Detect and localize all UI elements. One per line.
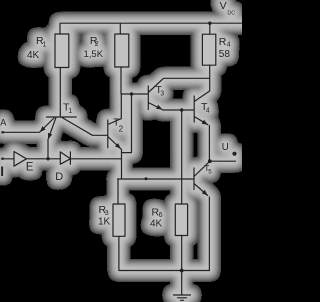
svg-text:2: 2 (119, 125, 124, 134)
svg-text:I: I (0, 164, 4, 179)
svg-text:DC: DC (227, 10, 235, 16)
svg-text:V: V (220, 0, 227, 12)
svg-text:U: U (222, 142, 229, 153)
svg-text:1: 1 (68, 108, 72, 115)
svg-text:1: 1 (43, 41, 47, 48)
svg-text:3: 3 (160, 91, 164, 98)
svg-text:E: E (26, 162, 34, 174)
svg-text:4: 4 (206, 107, 210, 114)
svg-text:4K: 4K (27, 50, 40, 61)
svg-text:4: 4 (227, 42, 231, 49)
svg-text:2: 2 (95, 41, 99, 48)
svg-text:1,5K: 1,5K (84, 49, 104, 60)
svg-text:A: A (0, 118, 6, 128)
svg-text:58: 58 (219, 49, 231, 60)
svg-text:D: D (55, 171, 63, 183)
svg-text:1K: 1K (98, 217, 111, 228)
svg-text:4K: 4K (150, 218, 163, 229)
svg-text:R: R (219, 36, 227, 48)
